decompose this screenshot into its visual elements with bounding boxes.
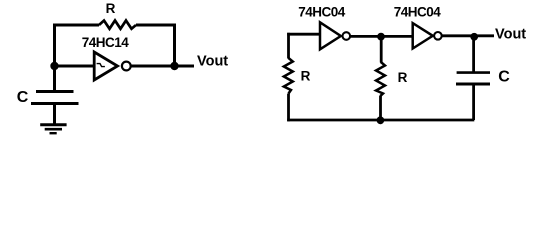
wire: input of first inverter xyxy=(287,33,319,36)
svg-text:Vout: Vout xyxy=(495,27,526,43)
resistor R (left, right circuit) xyxy=(284,58,293,94)
resistor R (middle, right circuit) xyxy=(376,62,385,96)
wire: inverter input xyxy=(55,65,95,68)
svg-text:74HC04: 74HC04 xyxy=(298,4,346,19)
wire: top rail right segment xyxy=(136,24,176,27)
inversion bubble of U2 xyxy=(343,32,351,40)
wire: right vertical (feedback) xyxy=(173,24,176,67)
capacitor C (left circuit) bottom plate xyxy=(31,102,79,105)
wire: between inverters xyxy=(350,35,412,38)
wire: second inverter output to Vout xyxy=(442,34,494,37)
wire: bottom rail xyxy=(287,119,474,122)
wire: capacitor bottom lead (right circuit) xyxy=(472,86,475,121)
svg-text:R: R xyxy=(301,68,311,83)
svg-text:C: C xyxy=(17,89,29,106)
wire: left vertical rail xyxy=(53,24,56,91)
wire: middle resistor upper lead xyxy=(380,37,383,63)
hysteresis symbol inside U1 xyxy=(97,64,105,67)
wire: top rail left segment xyxy=(53,24,99,27)
svg-text:Vout: Vout xyxy=(197,54,228,70)
op-amp U3: second 74HC04 inverter triangle xyxy=(413,23,433,48)
node: output junction xyxy=(170,62,178,70)
wire: middle resistor lower lead xyxy=(379,96,382,121)
capacitor C (right circuit) top plate xyxy=(457,71,490,74)
wire: left rail upper lead xyxy=(287,33,290,59)
node: inverter input junction xyxy=(50,62,58,70)
svg-text:R: R xyxy=(398,70,408,85)
node: junction between inverters xyxy=(377,33,385,41)
svg-text:74HC14: 74HC14 xyxy=(82,35,130,50)
svg-text:74HC04: 74HC04 xyxy=(394,4,442,19)
node: output junction xyxy=(470,33,478,41)
inversion bubble of U1 xyxy=(122,62,131,71)
ground symbol xyxy=(40,125,66,134)
node: bottom junction xyxy=(377,116,385,124)
inversion bubble of U3 xyxy=(434,32,442,40)
capacitor C (left circuit) top plate xyxy=(36,90,74,93)
op-amp U1: 74HC14 inverter triangle xyxy=(94,52,117,80)
resistor R (feedback, left circuit) xyxy=(99,21,136,29)
capacitor C (right circuit) bottom plate xyxy=(456,83,490,86)
wire: capacitor top lead (right circuit) xyxy=(472,37,475,72)
svg-text:C: C xyxy=(498,69,510,86)
wire: inverter output to Vout xyxy=(131,65,194,68)
svg-text:R: R xyxy=(106,1,116,16)
op-amp U2: first 74HC04 inverter triangle xyxy=(320,22,341,49)
wire: left rail lower lead xyxy=(287,94,290,122)
wire: capacitor bottom lead xyxy=(53,105,56,124)
